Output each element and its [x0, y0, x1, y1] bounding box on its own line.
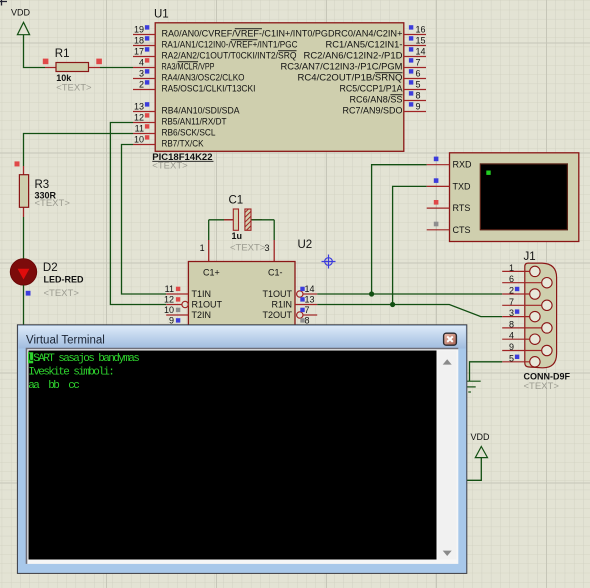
U2 left pin leads	[166, 294, 188, 315]
svg-text:U2: U2	[298, 239, 313, 251]
svg-text:RA4/AN3/OSC2/CLKO: RA4/AN3/OSC2/CLKO	[162, 72, 245, 82]
svg-text:R1: R1	[55, 48, 70, 60]
svg-text:RXD: RXD	[453, 160, 473, 170]
svg-text:R1IN: R1IN	[271, 300, 292, 310]
svg-text:VDD: VDD	[471, 432, 491, 442]
svg-text:aa bb cc: aa bb cc	[28, 380, 79, 392]
svg-text:10: 10	[164, 305, 174, 315]
svg-text:6: 6	[416, 69, 421, 79]
svg-text:13: 13	[305, 295, 315, 305]
svg-text:15: 15	[416, 36, 426, 46]
svg-text:9: 9	[509, 342, 514, 352]
svg-text:12: 12	[164, 295, 174, 305]
svg-text:3: 3	[139, 69, 144, 79]
svg-text:RTS: RTS	[453, 203, 471, 213]
svg-text:11: 11	[165, 284, 174, 294]
svg-text:RA0/AN0/CVREF/VREF-/C1IN+/INT0: RA0/AN0/CVREF/VREF-/C1IN+/INT0/PGD	[162, 28, 335, 38]
svg-text:LED-RED: LED-RED	[44, 274, 84, 284]
svg-text:VDD: VDD	[11, 8, 31, 18]
svg-text:14: 14	[416, 47, 426, 57]
svg-text:C1+: C1+	[203, 268, 220, 278]
svg-text:<TEXT>: <TEXT>	[35, 198, 71, 209]
U1 pin labels	[162, 28, 335, 148]
svg-text:RC6/AN8/SS: RC6/AN8/SS	[350, 94, 403, 104]
svg-text:R3: R3	[35, 179, 50, 191]
U2 right pin leads	[295, 291, 317, 318]
LED D2	[10, 259, 84, 299]
wire J1 pin5 to ground	[470, 362, 503, 381]
svg-text:11: 11	[135, 124, 144, 134]
svg-text:USART sasajos bandymas: USART sasajos bandymas	[28, 353, 139, 365]
svg-text:Virtual Terminal: Virtual Terminal	[26, 334, 105, 346]
svg-text:10: 10	[134, 135, 144, 145]
svg-text:T2OUT: T2OUT	[262, 310, 292, 320]
svg-text:1: 1	[509, 263, 514, 273]
wire RXD column up to terminal	[372, 165, 427, 294]
svg-text:R1OUT: R1OUT	[192, 300, 223, 310]
microcontroller U1 PIC18F14K22	[152, 9, 403, 172]
svg-text:8: 8	[416, 91, 421, 101]
svg-text:RC2/AN6/C12IN2-/P1D: RC2/AN6/C12IN2-/P1D	[304, 50, 404, 60]
svg-text:19: 19	[134, 25, 144, 35]
svg-text:<TEXT>: <TEXT>	[56, 83, 92, 94]
resistor R3	[15, 161, 71, 217]
junction node at RXD column	[369, 291, 374, 296]
wire D2 down (behind window)	[23, 285, 25, 330]
svg-text:<TEXT>: <TEXT>	[524, 381, 560, 392]
svg-text:5: 5	[509, 353, 514, 363]
svg-text:RC3/AN7/C12IN3-/P1C/PGM: RC3/AN7/C12IN3-/P1C/PGM	[281, 61, 403, 71]
svg-text:CONN-D9F: CONN-D9F	[524, 371, 571, 381]
wire VDD to R1	[24, 35, 46, 68]
svg-text:RA1/AN1/C12IN0-/VREF+/INT1/PGC: RA1/AN1/C12IN0-/VREF+/INT1/PGC	[162, 39, 298, 49]
svg-text:10k: 10k	[56, 73, 72, 83]
svg-text:RB7/TX/CK: RB7/TX/CK	[162, 138, 204, 148]
svg-text:C1: C1	[229, 195, 244, 207]
wire C1 pin3 to U2 C1-	[273, 220, 275, 240]
svg-text:1u: 1u	[232, 231, 243, 241]
svg-text:4: 4	[509, 331, 514, 341]
svg-text:2: 2	[509, 286, 514, 296]
svg-text:RC7/AN9/SDO: RC7/AN9/SDO	[343, 105, 403, 115]
terminal green text	[28, 352, 33, 363]
svg-text:RC0/AN4/C2IN+: RC0/AN4/C2IN+	[335, 28, 403, 38]
svg-text:16: 16	[416, 25, 426, 35]
capacitor C1	[209, 195, 275, 254]
close button	[444, 333, 457, 345]
svg-text:1: 1	[200, 243, 205, 253]
svg-text:C1-: C1-	[268, 268, 283, 278]
svg-text:<TEXT>: <TEXT>	[44, 288, 80, 299]
svg-text:3: 3	[265, 243, 270, 253]
svg-text:<TEXT>: <TEXT>	[152, 161, 188, 172]
svg-text:J1: J1	[524, 251, 536, 263]
svg-text:RC4/C2OUT/P1B/SRNQ: RC4/C2OUT/P1B/SRNQ	[298, 72, 403, 82]
svg-text:7: 7	[305, 305, 310, 315]
svg-text:T2IN: T2IN	[192, 310, 212, 320]
virtual terminal instrument symbol	[450, 153, 579, 242]
svg-text:RA3/MCLR/VPP: RA3/MCLR/VPP	[162, 61, 215, 71]
svg-text:18: 18	[134, 36, 144, 46]
resistor R1	[43, 48, 102, 94]
wire RB7 to U2 T1IN	[122, 145, 167, 295]
wire C1 pin1 to U2 C1+	[208, 220, 210, 240]
svg-text:7: 7	[509, 297, 514, 307]
svg-text:2: 2	[139, 80, 144, 90]
svg-text:RB4/AN10/SDI/SDA: RB4/AN10/SDI/SDA	[162, 105, 240, 115]
wire RB5 to U2 R1OUT	[110, 123, 166, 305]
wire TXD column up to terminal	[393, 186, 427, 304]
svg-text:3: 3	[509, 308, 514, 318]
svg-text:RB6/SCK/SCL: RB6/SCK/SCL	[162, 127, 216, 137]
wire R1 to U1 pin 4	[100, 67, 133, 69]
svg-text:8: 8	[305, 316, 310, 326]
svg-text:13: 13	[134, 102, 144, 112]
power symbol VDD top-left	[11, 8, 31, 35]
ground symbol (partially hidden by window)	[463, 381, 481, 392]
svg-text:RA5/OSC1/CLKI/T13CKI: RA5/OSC1/CLKI/T13CKI	[162, 83, 256, 93]
svg-text:T1IN: T1IN	[192, 289, 212, 299]
U1 right pins	[404, 35, 426, 112]
svg-text:CTS: CTS	[453, 225, 471, 235]
svg-text:9: 9	[169, 316, 174, 326]
svg-text:D2: D2	[43, 262, 58, 274]
chip U2 (MAX232 section)	[188, 239, 312, 332]
wire VDD to window edge	[466, 458, 481, 481]
svg-text:RB5/AN11/RX/DT: RB5/AN11/RX/DT	[162, 116, 227, 126]
svg-text:RC5/CCP1/P1A: RC5/CCP1/P1A	[340, 83, 403, 93]
origin marker near U2	[322, 255, 336, 269]
connector J1 CONN-D9F	[502, 251, 570, 392]
svg-text:Iveskite simboli:: Iveskite simboli:	[28, 367, 113, 379]
svg-text:5: 5	[416, 80, 421, 90]
svg-text:4: 4	[139, 58, 144, 68]
svg-text:TXD: TXD	[453, 181, 472, 191]
svg-text:<TEXT>: <TEXT>	[230, 243, 266, 254]
svg-text:U1: U1	[154, 9, 169, 21]
svg-text:17: 17	[134, 47, 144, 57]
svg-text:6: 6	[509, 274, 514, 284]
wire RB6 to R3	[24, 134, 134, 167]
svg-text:8: 8	[509, 319, 514, 329]
svg-text:RC1/AN5/C12IN1-: RC1/AN5/C12IN1-	[326, 39, 403, 49]
svg-text:14: 14	[305, 284, 315, 294]
svg-text:T1OUT: T1OUT	[262, 289, 292, 299]
wire U2 R1IN to J1 pin3	[317, 305, 502, 317]
wire R3 to D2	[23, 217, 25, 259]
U1 left pins	[133, 35, 155, 145]
svg-text:RA2/AN2/C1OUT/T0CKI/INT2/SRQ: RA2/AN2/C1OUT/T0CKI/INT2/SRQ	[162, 50, 297, 60]
svg-text:7: 7	[416, 58, 421, 68]
svg-text:12: 12	[134, 113, 144, 123]
Virtual Terminal popup window	[17, 325, 466, 574]
power symbol VDD bottom-right	[471, 432, 491, 458]
svg-text:9: 9	[416, 102, 421, 112]
junction node at TXD column	[390, 302, 395, 307]
wire U2 T1OUT to J1 pin2	[317, 293, 502, 295]
